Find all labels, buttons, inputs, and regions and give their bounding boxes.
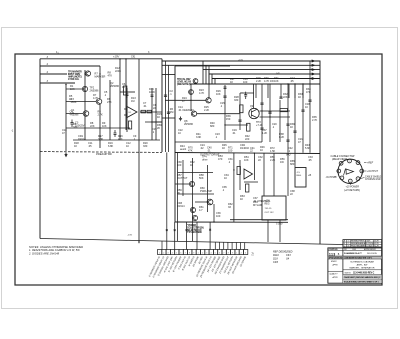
value label R70 47K [188, 146, 193, 153]
svg-text:R.HANSEN 10-4-77: R.HANSEN 10-4-77 [344, 252, 362, 255]
value label R65 680 [290, 159, 295, 166]
svg-text:ENGR: ENGR [331, 261, 337, 263]
value label R5 1K [69, 94, 73, 101]
value label R5b [98, 110, 104, 117]
label +output [364, 171, 379, 173]
svg-text:APPROVED BY: APPROVED BY [364, 248, 377, 251]
wire top bus 4 [209, 73, 320, 75]
value label R61 4.7 [199, 205, 204, 212]
transistor Q12 [190, 207, 195, 212]
wire middle rail [190, 83, 320, 85]
svg-text:27K: 27K [107, 100, 112, 104]
label bottom note [276, 224, 283, 226]
connector J1 pin 8 [337, 169, 341, 173]
svg-text:1K: 1K [240, 197, 243, 201]
svg-text:6: 6 [350, 181, 351, 183]
svg-text:PREAMP BD: PREAMP BD [96, 152, 112, 156]
svg-text:(+2): (+2) [276, 72, 280, 74]
wire [195, 201, 207, 203]
junction [213, 221, 214, 222]
value label C18 10 [305, 102, 310, 109]
svg-text:(+15 RETURN): (+15 RETURN) [344, 190, 360, 192]
wire top bus 5 [212, 77, 320, 79]
wire [66, 113, 83, 115]
svg-text:P1: P1 [251, 253, 255, 257]
svg-text:470: 470 [306, 90, 311, 94]
wire [280, 84, 282, 98]
value label R38 8.2K [279, 132, 285, 139]
value label R28 330 [234, 95, 239, 102]
capacitor C13 [224, 87, 227, 88]
value label C7 .01 [143, 101, 147, 108]
svg-text:.05: .05 [290, 79, 294, 83]
svg-text:6: 6 [219, 252, 220, 254]
value label R6 330 [73, 122, 78, 129]
capacitor tick [268, 112, 271, 113]
value label C34 10 [224, 173, 229, 180]
capacitor tick [279, 97, 282, 98]
svg-text:4N5086: 4N5086 [70, 112, 80, 116]
wire [177, 153, 179, 241]
wire [161, 241, 163, 250]
value label R42 220 [245, 134, 250, 141]
tick [166, 229, 168, 231]
svg-text:W.J.OLSON: W.J.OLSON [367, 253, 377, 255]
pin label 17/ MARKER OUT [219, 255, 231, 274]
value label R8b [108, 71, 113, 78]
node pin 3 (input wire) [40, 63, 100, 66]
svg-text:APPD: APPD [332, 263, 339, 266]
wire [211, 74, 213, 84]
wire [213, 204, 215, 222]
svg-text:100: 100 [228, 148, 233, 152]
value label TP4 drive [202, 155, 208, 162]
value label R20 330 [143, 141, 148, 148]
svg-text:REG: REG [265, 204, 270, 206]
svg-text:1K: 1K [222, 146, 225, 150]
svg-text:austri: austri [180, 147, 187, 151]
svg-text:2.7K: 2.7K [312, 118, 318, 122]
svg-text:CONTR NO: CONTR NO [329, 249, 339, 251]
value label R9b [107, 97, 112, 104]
tick [186, 229, 188, 231]
wire [99, 66, 101, 99]
wire [230, 219, 288, 221]
svg-text:+15 POWER: +15 POWER [346, 186, 360, 188]
svg-text:QUALITY: QUALITY [330, 273, 339, 276]
transistor Q10 [189, 181, 194, 186]
svg-text:.05: .05 [88, 144, 92, 148]
svg-text:150K: 150K [71, 100, 77, 104]
pin label 14/ +15V SENSE [206, 255, 217, 273]
wire [261, 84, 263, 142]
wire [140, 111, 162, 113]
svg-text:C81: C81 [131, 56, 136, 59]
svg-text:1W: 1W [280, 160, 284, 164]
value label R43 5.6K [305, 143, 311, 150]
transistor Q7 [206, 98, 211, 103]
value label R31 10K [274, 76, 279, 83]
wire main bottom bus [40, 239, 343, 245]
value label C23 .1 [215, 132, 220, 139]
capacitor C2 [123, 89, 129, 98]
value label R25 2.2K [204, 105, 210, 112]
svg-text:4: 4 [361, 171, 362, 173]
svg-text:2N5086: 2N5086 [110, 84, 120, 88]
label P1 [251, 253, 255, 257]
wire [255, 84, 257, 98]
wire [208, 66, 210, 98]
value label C5 .1 [104, 90, 108, 97]
pin label 4/ CAL OUT 1MV [163, 255, 174, 273]
value label R3b [71, 97, 77, 104]
wire [279, 220, 281, 242]
svg-text:2: 2 [163, 252, 164, 254]
wire [239, 93, 241, 130]
svg-text:2: 2 [202, 252, 203, 254]
value label C42 .1 [288, 146, 293, 153]
svg-text:470: 470 [218, 157, 223, 161]
wire [263, 153, 265, 196]
svg-text:7: 7 [223, 252, 224, 254]
wire [244, 181, 258, 183]
value label R4b [70, 110, 80, 117]
value label R55 2.2K [270, 155, 276, 162]
value label R72 1.5K [270, 146, 276, 153]
label cable shield [360, 175, 382, 181]
wire top bus 2 [162, 64, 320, 66]
pin label 9/ SHIELD [189, 256, 196, 267]
svg-text:5: 5 [215, 252, 216, 254]
value label R58 56K [199, 173, 204, 180]
value label C15 .1 [220, 101, 225, 108]
value label Q2b [90, 86, 100, 93]
wire [288, 84, 290, 98]
svg-text:1N914: 1N914 [177, 204, 185, 208]
label OUTPUT DRIVE [200, 152, 220, 156]
pin label 10/ SPARE [192, 255, 200, 267]
svg-text:1K: 1K [74, 144, 77, 148]
connector J1 outline [338, 159, 362, 183]
junction [302, 83, 303, 84]
wire [155, 88, 157, 140]
value label C33 .05 [308, 155, 313, 162]
svg-text:100/25V: 100/25V [75, 123, 85, 127]
wire [253, 153, 255, 180]
svg-text:2N5086: 2N5086 [184, 122, 194, 126]
border zone tick 2 [148, 51, 150, 54]
svg-text:CR3: CR3 [273, 261, 279, 264]
svg-text:3: 3 [245, 252, 246, 254]
wire main left boundary [39, 59, 41, 239]
svg-text:2.2K: 2.2K [204, 108, 210, 112]
svg-text:1: 1 [340, 163, 341, 165]
value label R64 MYLAR [253, 200, 262, 207]
ref desig list [273, 251, 293, 264]
svg-text:100: 100 [177, 163, 182, 167]
transistor Q2 [82, 86, 87, 91]
svg-text:3.3K: 3.3K [98, 137, 104, 141]
wire [224, 85, 226, 140]
junction [294, 83, 295, 84]
border zone tick 1 [56, 51, 60, 54]
label block TP1 marker [68, 70, 82, 81]
resistor R20 [240, 105, 243, 113]
svg-text:CHASSIS GND: CHASSIS GND [365, 178, 381, 181]
junction [190, 100, 191, 101]
wire [214, 79, 216, 85]
svg-text:470: 470 [118, 137, 123, 141]
value label C14 .01 CERAMIC [178, 105, 194, 112]
svg-text:PWR AMP: PWR AMP [200, 189, 212, 193]
svg-text:5.6K: 5.6K [305, 146, 311, 150]
svg-text:3: 3 [168, 252, 169, 254]
value label R39 1K [290, 122, 295, 129]
label +15V bus [238, 59, 244, 61]
title block dense strip [328, 258, 382, 260]
wire [151, 121, 162, 123]
pin label 8/ SIG OUT LO [182, 256, 191, 271]
junction [254, 153, 255, 154]
svg-text:47K: 47K [108, 73, 113, 77]
junction [65, 84, 66, 85]
svg-text:10K: 10K [70, 87, 75, 91]
svg-text:2K: 2K [157, 126, 160, 130]
op-amp U1 [124, 107, 137, 118]
value label R32 22K [283, 92, 288, 99]
svg-text:2N5086: 2N5086 [90, 88, 100, 92]
svg-text:-15V: -15V [128, 235, 133, 237]
svg-text:1. RESISTORS ARE CARBON 1/4 W: 1. RESISTORS ARE CARBON 1/4 W, 5% [29, 248, 80, 252]
wire [66, 101, 96, 103]
ground arrow under preamp bd [65, 152, 67, 156]
junction [269, 116, 270, 117]
notes block [28, 245, 83, 256]
wire [253, 84, 255, 108]
wire [138, 59, 140, 244]
pin label 19/ OUT MONITOR [228, 256, 239, 275]
transistor Q4 [83, 111, 89, 117]
wire [66, 88, 82, 90]
capacitor tick gap1 [164, 95, 167, 96]
svg-text:8.2K: 8.2K [279, 135, 285, 139]
wire [175, 141, 262, 143]
resistor R22 [280, 109, 288, 112]
title block row line 1 [328, 249, 382, 251]
wire [125, 59, 127, 130]
wire [190, 84, 192, 111]
value label R46 10 [260, 145, 265, 152]
wire [168, 65, 170, 152]
capacitor tick [223, 96, 226, 97]
value label R63 1K [240, 194, 245, 201]
wire [227, 242, 229, 249]
wire [192, 158, 194, 241]
svg-text:220K: 220K [115, 69, 121, 73]
connector J1 pin 5 [356, 177, 360, 181]
junction [208, 83, 209, 84]
value label R30 4.7K 1W [264, 76, 274, 83]
junction [84, 73, 85, 74]
value label Q2 2N5086 [110, 81, 120, 88]
wire [267, 220, 269, 242]
svg-text:3: 3 [357, 162, 358, 164]
svg-text:47K: 47K [188, 148, 193, 152]
capacitor C30L [70, 120, 73, 128]
svg-text:1.2K: 1.2K [262, 131, 268, 135]
transistor Q11 [207, 199, 213, 205]
wire [178, 172, 214, 174]
title block left divider [328, 271, 343, 273]
wire [260, 116, 291, 118]
wire [126, 88, 128, 132]
value label Q8 2N5086 [184, 119, 194, 126]
transistor Q8 [191, 111, 196, 116]
pin label 16/ CHASSIS GND [214, 256, 226, 275]
pin label 21/ SPARE [239, 255, 248, 268]
border zone tick 3 [11, 130, 14, 133]
value label R15 1K [157, 112, 162, 119]
wire [182, 160, 184, 196]
svg-text:113-0448-2000 REV C: 113-0448-2000 REV C [353, 272, 375, 275]
wire [186, 222, 188, 250]
node pin 4 (input wire) [40, 71, 67, 74]
wire [279, 100, 281, 142]
value label R71 100 [228, 146, 233, 153]
svg-text:1K: 1K [298, 95, 301, 99]
svg-text:1M: 1M [170, 110, 174, 114]
preamp board bottom (dashed) [40, 151, 162, 154]
wire [207, 165, 209, 212]
capacitor tick [260, 103, 263, 104]
wire [119, 59, 121, 140]
svg-text:+B: +B [308, 173, 311, 177]
wire top bus 3 [203, 69, 320, 71]
svg-text:AMPL, BW: AMPL, BW [357, 264, 369, 267]
wire [65, 85, 67, 152]
value label R17 3.3K [98, 134, 104, 141]
wire [145, 121, 162, 123]
wire [235, 242, 237, 249]
svg-text:.01: .01 [232, 131, 236, 135]
wire [294, 84, 296, 98]
pin label 3/ SIGNAL GROUND [157, 256, 170, 277]
wire [269, 84, 271, 142]
svg-text:10K: 10K [244, 158, 249, 162]
value label C35 .1 [222, 185, 227, 192]
value label R19 6.8K [108, 141, 114, 148]
svg-text:(REAR VIEW): (REAR VIEW) [332, 158, 347, 161]
svg-text:1K: 1K [190, 163, 193, 167]
wire [273, 153, 275, 196]
junction [119, 58, 120, 59]
wire [162, 117, 175, 119]
value label C40 .01 [207, 146, 212, 153]
svg-text:NOTES: UNLESS OTHERWISE SPECIF: NOTES: UNLESS OTHERWISE SPECIFIED [29, 245, 83, 249]
pin label 6/ +15V POWER [173, 256, 183, 273]
value label R60 PWR AMP [200, 186, 212, 193]
value label C25 .1 [152, 127, 157, 134]
connector J1 pin 7 [340, 176, 344, 180]
voltage regulator box VR1 [262, 196, 286, 220]
capacitor tick [301, 110, 304, 111]
value label C32 22 [258, 155, 263, 162]
junction [261, 110, 262, 111]
svg-text:1: 1 [159, 252, 160, 254]
revision row [344, 240, 380, 243]
svg-text:1N914: 1N914 [78, 137, 86, 141]
junction [287, 83, 288, 84]
svg-text:8: 8 [189, 252, 190, 254]
wire [162, 74, 175, 76]
svg-text:1K: 1K [230, 80, 233, 84]
svg-text:2: 2 [241, 252, 242, 254]
value label R27 1K [230, 77, 235, 84]
svg-text:2K: 2K [177, 191, 180, 195]
value label R18 1K [74, 141, 79, 148]
resistor R51 [246, 184, 249, 192]
svg-text:4.7K: 4.7K [199, 91, 205, 95]
resistor R10 [141, 110, 146, 113]
label divider note [286, 154, 291, 157]
connector P1 terminal strip [158, 250, 248, 255]
value label C19 .01 [232, 128, 237, 135]
transistor Q9 (power) [249, 106, 259, 119]
transistor Q13 [192, 215, 197, 220]
title dense row [328, 256, 382, 259]
wire [239, 160, 241, 190]
value label CR3 1N914 [177, 201, 185, 208]
pin label 11/ KEY [199, 256, 205, 265]
svg-text:2.2K: 2.2K [256, 79, 262, 83]
value label C1 .01 [71, 108, 75, 115]
wire [233, 153, 235, 222]
svg-text:(SEE NOTE 2): (SEE NOTE 2) [177, 83, 191, 86]
value label C11 .05 [88, 141, 93, 148]
svg-text:drive: drive [202, 157, 208, 161]
title block row line 2 [328, 255, 382, 257]
capacitor tick [260, 128, 263, 129]
title main text [350, 261, 375, 270]
title bottom dense 1 [343, 275, 382, 280]
wire [214, 242, 216, 249]
svg-text:+7.46: +7.46 [256, 123, 263, 127]
wire [197, 113, 240, 115]
drawing border frame [15, 54, 382, 285]
value label R23 4.7K [199, 88, 205, 95]
wire [240, 242, 242, 249]
svg-text:113: 113 [329, 252, 336, 256]
svg-text:(-15V): (-15V) [276, 224, 283, 226]
junction [99, 73, 100, 74]
svg-text:CABLE SHIELD: CABLE SHIELD [365, 175, 382, 178]
value label R29 2.2K [256, 76, 262, 83]
preamp board top edge [40, 58, 162, 60]
junction [224, 124, 225, 125]
capacitor tick [238, 120, 241, 121]
svg-text:4.7K: 4.7K [93, 96, 99, 100]
value label C22 10 [178, 128, 183, 135]
svg-text:1.5K: 1.5K [270, 149, 276, 153]
wire [166, 152, 168, 249]
svg-text:56K: 56K [199, 176, 204, 180]
title block right rows [343, 270, 382, 280]
revision row [344, 242, 380, 245]
wire [174, 222, 176, 250]
connector J1 pin 1 [339, 161, 343, 165]
svg-text:.05: .05 [308, 158, 312, 162]
svg-text:SIZE B: SIZE B [345, 272, 352, 274]
